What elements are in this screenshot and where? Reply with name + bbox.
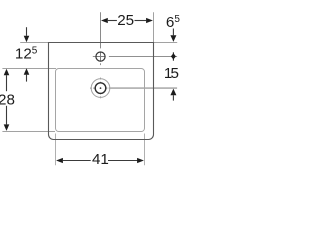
svg-text:15: 15 <box>164 65 179 82</box>
svg-text:28: 28 <box>0 91 15 108</box>
svg-text:25: 25 <box>117 12 134 29</box>
svg-text:41: 41 <box>92 151 109 168</box>
